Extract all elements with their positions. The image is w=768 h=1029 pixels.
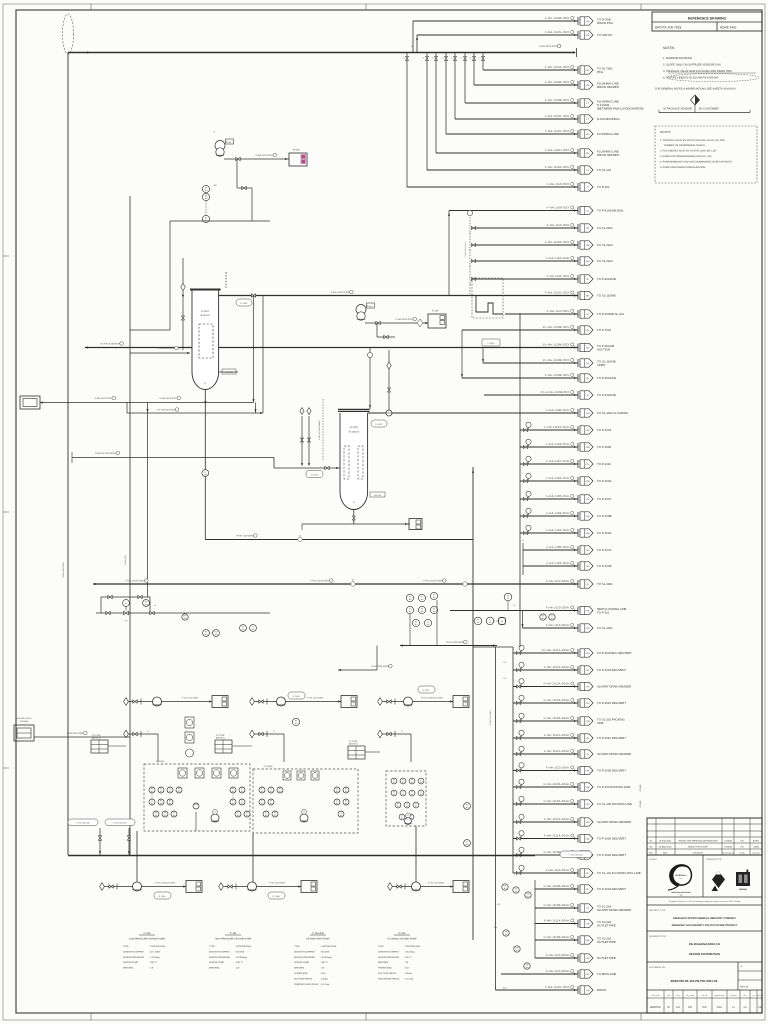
instrument bubble on row y=686.5 (517, 685, 521, 688)
wire to off-page connector 07 at y=314.0 (505, 313, 578, 315)
svg-text:23A: 23A (586, 803, 590, 806)
off-page connector 22B (577, 443, 579, 451)
svg-text:3. TRIANGLE VALVE NEW FLUSHIN: 3. TRIANGLE VALVE NEW FLUSHING AND DRAIN… (663, 70, 732, 73)
off-page connector 77 (577, 183, 579, 191)
small verticals for rows 550/566 (522, 543, 524, 575)
svg-text:110: 110 (401, 817, 404, 820)
wire to off-page connector 22B at y=481.0 (520, 480, 578, 482)
branch below P-1102 (376, 323, 378, 337)
vertical from header to row 21 (412, 21, 414, 53)
svg-text:"T": "T" (213, 131, 216, 134)
svg-text:F-HA-J107-/02A: F-HA-J107-/02A (546, 459, 569, 463)
off-page connector 14A (577, 649, 579, 657)
svg-text:TO P-100B: TO P-100B (597, 514, 611, 518)
svg-text:P-110C: P-110C (423, 689, 430, 692)
svg-text:F-HA-J110-/023: F-HA-J110-/023 (67, 732, 84, 735)
svg-text:SUCTION PRESS.: SUCTION PRESS. (378, 972, 397, 975)
line y=457.5 long to vessel2 (72, 457, 274, 459)
svg-text:110: 110 (151, 790, 154, 793)
svg-text:TO SLP107: TO SLP107 (597, 33, 612, 37)
svg-text:F-HA-J110L-/023: F-HA-J110L-/023 (545, 291, 569, 295)
battery limit box left (second) (14, 725, 34, 741)
svg-text:1½-HA-J110-/023: 1½-HA-J110-/023 (157, 409, 176, 412)
vertical row395 drop (483, 395, 485, 413)
svg-text:F-HA-J104-/02B: F-HA-J104-/02B (546, 256, 569, 260)
off-page connector 27B (577, 624, 579, 632)
svg-text:110: 110 (527, 895, 530, 898)
off-page connector 07A (577, 257, 579, 265)
svg-text:F-HA-J110-200A: F-HA-J110-200A (546, 606, 569, 610)
wire to off-page connector 23 at y=908.0 (535, 907, 578, 909)
svg-text:2x: 2x (411, 45, 413, 48)
svg-text:110: 110 (345, 802, 348, 805)
svg-text:22B: 22B (586, 532, 590, 535)
svg-text:10A: 10A (586, 133, 590, 136)
svg-text:HDPE PKG: HDPE PKG (720, 26, 737, 30)
svg-text:F-HA-J110B-204A: F-HA-J110B-204A (544, 884, 569, 888)
svg-text:MATERIAL: MATERIAL (378, 961, 390, 964)
svg-text:110: 110 (340, 814, 343, 817)
svg-text:110: 110 (676, 1006, 681, 1009)
pump P-1102 (356, 305, 366, 315)
svg-text:TO P-1010: TO P-1010 (597, 462, 611, 466)
drops to suction header (99, 828, 101, 856)
svg-text:TO P-4001A/B: TO P-4001A/B (597, 376, 616, 380)
off-page connector 27A (577, 699, 579, 707)
svg-text:110: 110 (421, 598, 424, 601)
svg-text:HEXANE (NEW): HEXANE (NEW) (17, 717, 32, 720)
svg-text:TO P-2201A/B: TO P-2201A/B (597, 277, 616, 281)
svg-text:N.C.: N.C. (497, 903, 501, 906)
svg-text:110: 110 (409, 598, 412, 601)
svg-text:PETROPALA: PETROPALA (675, 874, 687, 877)
svg-text:1½-HA-J110B-/023: 1½-HA-J110B-/023 (542, 358, 569, 362)
vessel D-1101 (192, 292, 219, 390)
wire to off-page connector 41 at y=584.0 (93, 583, 578, 585)
svg-text:F-HA-J101-/02A: F-HA-J101-/02A (546, 561, 569, 565)
svg-text:REFERENCE DRAWING: REFERENCE DRAWING (688, 17, 727, 21)
off-page connector 07 (577, 869, 579, 877)
wire to off-page connector 07A at y=261.0 (473, 260, 578, 262)
svg-text:07A: 07A (586, 69, 590, 72)
off-page connector 41 (577, 580, 579, 588)
svg-text:110: 110 (232, 802, 235, 805)
wire to off-page connector 22B at y=838.5 (513, 838, 578, 840)
off-page connector 23 (577, 683, 579, 691)
svg-text:110: 110 (232, 790, 235, 793)
wire to off-page connector 27B at y=499.0 (520, 498, 578, 500)
svg-text:DISCHARGE PRESS.: DISCHARGE PRESS. (378, 977, 400, 980)
svg-text:110: 110 (160, 790, 163, 793)
svg-text:F-HA-J110-/023: F-HA-J110-/023 (396, 318, 413, 321)
feed line into D-1102 (274, 467, 340, 469)
wire to off-page connector 0B at y=295.5 (219, 295, 578, 297)
svg-text:1½-F-HA-J110B-023: 1½-F-HA-J110B-023 (540, 390, 569, 394)
svg-text:: 100 °C: : 100 °C (320, 961, 328, 964)
svg-text:: 100 °C: : 100 °C (149, 961, 157, 964)
wire to off-page connector 1B at y=363.0 (483, 362, 578, 364)
off-page connector 74C (577, 224, 579, 232)
sheet number table (647, 989, 762, 991)
svg-text:110: 110 (155, 814, 158, 817)
svg-text:110: 110 (205, 197, 208, 200)
off-page connector 07 (577, 885, 579, 893)
svg-text:74B: 74B (586, 244, 590, 247)
svg-text:F-HA-J111A-204A: F-HA-J111A-204A (544, 665, 569, 669)
instrument bubble on row y=822.0 (517, 821, 521, 824)
svg-text:POWER (kW): POWER (kW) (294, 972, 308, 975)
wire to off-page connector 77 at y=187.0 (407, 186, 578, 188)
wire to off-page connector 26B at y=940.0 (535, 939, 578, 941)
svg-text:F-HA-J110A-200A: F-HA-J110A-200A (125, 580, 145, 583)
long line y=539.5 (205, 539, 473, 541)
svg-text:SLURRY DRAIN HEADER: SLURRY DRAIN HEADER (597, 752, 631, 756)
svg-text:NOTES:: NOTES: (663, 46, 675, 50)
svg-text:16-Aug-2021: 16-Aug-2021 (659, 840, 672, 843)
svg-text:TO P-110A/B/C DELIVERY: TO P-110A/B/C DELIVERY (597, 651, 632, 655)
svg-text:110: 110 (145, 603, 148, 606)
svg-text:3. PUMP SUCTION/DISCHARGE NOZ: 3. PUMP SUCTION/DISCHARGE NOZZLE LIST. (660, 155, 712, 158)
svg-text:2x: 2x (432, 57, 434, 60)
wire to off-page connector 23A at y=770.5 (513, 770, 578, 772)
wire to off-page connector 27B at y=628.0 (523, 627, 579, 629)
package vendor / customer legend (691, 95, 700, 105)
svg-text:F-HA-J110B-204A: F-HA-J110B-204A (544, 935, 569, 939)
svg-text:F-HA-J101-/023: F-HA-J101-/023 (547, 274, 570, 278)
svg-text:F-HA-J111A-204A: F-HA-J111A-204A (544, 919, 569, 923)
wire to off-page connector 23 at y=686.5 (513, 686, 578, 688)
left main vertical line V1 (67, 53, 69, 856)
svg-text:07A: 07A (586, 329, 590, 332)
svg-text:F-HA-J110-200A: F-HA-J110-200A (446, 641, 464, 644)
svg-text:DESIGN TEMP.: DESIGN TEMP. (209, 961, 225, 964)
svg-text:F-HA-J110E-/023: F-HA-J110E-/023 (545, 80, 570, 84)
suction header (68, 855, 535, 857)
second notes box (dashed) (655, 126, 757, 183)
svg-text:DEHDASHT HIGH DENSITY POLYETHY: DEHDASHT HIGH DENSITY POLYETHYLENE PROJE… (672, 924, 738, 927)
svg-text:LINE: LINE (597, 721, 603, 725)
svg-text:F-HA-J111A-204A: F-HA-J111A-204A (544, 817, 569, 821)
off-page connector 23B (577, 851, 579, 859)
svg-text:22B: 22B (586, 838, 590, 841)
off-page connector 17 (577, 115, 579, 123)
svg-text:110: 110 (279, 790, 282, 793)
fine print strip (647, 904, 762, 906)
spare train diamond/valve stub (378, 730, 383, 738)
svg-text:F-HA-J100-/02A: F-HA-J100-/02A (546, 545, 569, 549)
svg-text:F-HA-J110-/023: F-HA-J110-/023 (256, 154, 273, 157)
svg-text:I-1(0)/1: I-1(0)/1 (487, 342, 495, 345)
svg-text:2x: 2x (461, 57, 463, 60)
svg-text:F-HA-J110-200A: F-HA-J110-200A (182, 696, 199, 699)
svg-text:22A: 22A (586, 737, 590, 740)
flushing drop x=370 to D-1102 overhead (369, 348, 371, 410)
svg-text:F-HA-J113-204A: F-HA-J113-204A (546, 766, 569, 770)
package 2 gauge boxes row (283, 771, 291, 780)
svg-text:TO SL-1001 FLUSHING: TO SL-1001 FLUSHING (597, 411, 629, 415)
client logo (swirl) (668, 865, 691, 890)
svg-text:1/3: 1/3 (758, 1006, 762, 1009)
svg-text:0001: 0001 (717, 1006, 723, 1009)
verticals right of D-1101 (253, 296, 255, 403)
spare train diamond/valve stub (250, 730, 255, 738)
svg-text:TO P-1000 DELIVERY: TO P-1000 DELIVERY (597, 853, 626, 857)
svg-text:: 57.1 m3/h: : 57.1 m3/h (149, 950, 161, 953)
svg-text:14-May-2020: 14-May-2020 (659, 846, 673, 849)
svg-text:MATERIAL: MATERIAL (294, 967, 306, 970)
package box H-110 (magenta marks) (289, 153, 307, 166)
off-page connector 10A (577, 149, 579, 157)
valve on D-1102 overhead line (row 413) (386, 410, 392, 416)
svg-text:F-HA-J110-200A: F-HA-J110-200A (307, 696, 324, 699)
svg-text:F-HA-J110/110-200A: F-HA-J110/110-200A (155, 881, 176, 884)
svg-text:CLIENT: CLIENT (649, 858, 657, 861)
svg-text:: CS: : CS (404, 961, 409, 964)
wire to off-page connector 74C at y=228.0 (473, 227, 578, 229)
wire to off-page connector 23B at y=855.0 (513, 854, 578, 856)
package 1 dashed boundary (144, 764, 250, 831)
svg-text:110: 110 (505, 933, 508, 936)
svg-text:(NOTE 3): (NOTE 3) (216, 737, 225, 740)
svg-text:2-HA-J110-/023: 2-HA-J110-/023 (539, 45, 557, 48)
package 1 instrument bubbles (149, 787, 155, 793)
off-page connector 22B (577, 477, 579, 485)
svg-text:F-HA-J110-202: F-HA-J110-202 (569, 854, 583, 857)
feed line into D-1101 (130, 352, 190, 354)
wire to off-page connector 22A at y=738.0 (513, 737, 578, 739)
svg-text:TO D-101: TO D-101 (597, 185, 610, 189)
svg-text:DRT-PX-PID-7023: DRT-PX-PID-7023 (655, 26, 681, 30)
svg-text:TO P-100A DELIVERY: TO P-100A DELIVERY (597, 887, 626, 891)
svg-text:(BETWEEN P&D-110 DISCHARGE): (BETWEEN P&D-110 DISCHARGE) (597, 107, 644, 111)
svg-text:TO SL-4001: TO SL-4001 (597, 582, 613, 586)
wire to off-page connector 74B at y=245.0 (473, 244, 578, 246)
svg-text:F-HA-J110-204A: F-HA-J110-204A (546, 868, 569, 872)
svg-text:FROM(B): FROM(B) (20, 720, 29, 723)
svg-text:110: 110 (420, 781, 423, 784)
instrument bubble on row y=670.0 (517, 669, 521, 672)
svg-text:TO P-4102A/B SEAL: TO P-4102A/B SEAL (597, 209, 624, 213)
package 3 dashed boundary (386, 771, 426, 826)
off-page connector 20 (577, 546, 579, 554)
svg-text:F-HA-J110-/023: F-HA-J110-/023 (95, 397, 112, 400)
svg-text:TEMPERATURE PRESS.: TEMPERATURE PRESS. (294, 983, 319, 986)
svg-text:F-HA-J110-FLUSH: F-HA-J110-FLUSH (464, 242, 467, 258)
svg-text:TO P-1000 DELIVERY: TO P-1000 DELIVERY (597, 769, 626, 773)
svg-text:110: 110 (246, 814, 249, 817)
svg-text:4. TO PIPE LINE(67)-03-110-HA: 4. TO PIPE LINE(67)-03-110-HA-PX-1004-00… (663, 77, 719, 80)
off-page connector 07 (577, 310, 579, 318)
svg-text:4C: 4C (586, 377, 589, 380)
svg-text:ISSUED FOR APPROVAL/INFORMATIO: ISSUED FOR APPROVAL/INFORMATION (678, 840, 718, 843)
svg-text:N.C.: N.C. (494, 926, 498, 929)
svg-text:TO P-100 PACKING LINE: TO P-100 PACKING LINE (597, 785, 630, 789)
svg-text:TO P-1006 DELIVERY: TO P-1006 DELIVERY (597, 837, 626, 841)
svg-text:27B: 27B (586, 957, 590, 960)
line y=670 (338, 669, 377, 671)
pump P-1101 (215, 141, 225, 151)
wire to off-page connector 17A at y=21.0 (413, 20, 578, 22)
off-page connector 27B (577, 495, 579, 503)
svg-text:F-HA-J110A-/023: F-HA-J110A-/023 (545, 165, 570, 169)
svg-text:: 7.70 barg: : 7.70 barg (149, 956, 160, 959)
svg-text:110: 110 (242, 628, 245, 631)
svg-text:TO P-1010 DELIVERY: TO P-1010 DELIVERY (597, 736, 626, 740)
svg-text:N.C.: N.C. (503, 661, 507, 664)
svg-text:H-110: H-110 (293, 149, 300, 152)
sample line (170, 220, 270, 222)
svg-text:: 41.00 barg: : 41.00 barg (320, 956, 332, 959)
svg-text:22B: 22B (586, 446, 590, 449)
svg-text:D-110 DRAINING: D-110 DRAINING (597, 117, 620, 121)
svg-text:110: 110 (336, 790, 339, 793)
svg-text:Issue/Designed: Issue/Designed (722, 852, 734, 855)
svg-text:DEHDASHT PETROCHEMICAL INDUSTR: DEHDASHT PETROCHEMICAL INDUSTRY COMPANY (673, 917, 736, 920)
svg-text:"AA": "AA" (213, 184, 217, 187)
wire to off-page connector 27B at y=958.0 (535, 957, 578, 959)
svg-text:110: 110 (551, 617, 554, 620)
svg-text:S.ARIAN: S.ARIAN (724, 840, 733, 843)
pump train P-110C (378, 698, 383, 706)
svg-text:110: 110 (477, 621, 480, 624)
svg-text:F-HA-J110L-/023: F-HA-J110L-/023 (545, 129, 569, 133)
row210 riser down to header B (448, 211, 450, 296)
svg-text:SUCTION PRESS.: SUCTION PRESS. (294, 977, 313, 980)
svg-text:07A: 07A (586, 260, 590, 263)
svg-text:N.C.: N.C. (503, 987, 508, 990)
svg-text:: 65 m3/h: : 65 m3/h (320, 950, 330, 953)
svg-text:110: 110 (295, 722, 298, 725)
vertical row 610 to 628 (522, 611, 524, 629)
dotted signal with text above D-1102 (322, 399, 324, 461)
left end arrow of row 347 (85, 346, 88, 348)
svg-text:110: 110 (466, 806, 469, 809)
svg-text:TYPE: TYPE (209, 945, 215, 948)
svg-text:DRAWING TITLE: DRAWING TITLE (649, 935, 667, 938)
svg-text:MATERIAL: MATERIAL (209, 967, 221, 970)
wire to off-page connector 27A at y=464.0 (520, 463, 578, 465)
svg-text:1½-HA-J111A-204A: 1½-HA-J111A-204A (542, 648, 570, 652)
instrument bubble on row y=804.0 (517, 803, 521, 806)
wire to off-page connector 10A at y=153.0 (436, 152, 578, 154)
off-page connector 20 (577, 562, 579, 570)
svg-text:2x: 2x (479, 57, 481, 60)
svg-text:: CS: : CS (149, 967, 154, 970)
svg-text:21A: 21A (586, 412, 590, 415)
svg-text:-----: ----- (679, 878, 683, 880)
off-page connector 26B (577, 936, 579, 944)
svg-text:: CENTRIFUGAL: : CENTRIFUGAL (235, 945, 252, 948)
package diamonds feeding D-1102 line (301, 416, 303, 464)
svg-text:XXX/XXX: XXX/XXX (225, 371, 233, 374)
svg-text:F-HA-J110A-204A: F-HA-J110A-204A (544, 799, 569, 803)
instrument bubble on row y=499.0 (524, 498, 528, 501)
svg-text:F-HA-J110B-/023: F-HA-J110B-/023 (545, 98, 570, 102)
svg-text:TO P-1005: TO P-1005 (597, 445, 611, 449)
svg-text:DRAIN PKG: DRAIN PKG (597, 21, 614, 25)
wire to off-page connector 23 at y=754.0 (513, 753, 578, 755)
svg-text:26B: 26B (586, 939, 590, 942)
svg-text:P-112 A/B: P-112 A/B (312, 932, 324, 935)
svg-text:07B: 07B (586, 84, 590, 87)
svg-text:B.MRY: B.MRY (753, 840, 760, 843)
svg-text:DESIGN FLOWRATE: DESIGN FLOWRATE (209, 950, 231, 953)
svg-text:12-HA-J110-204A: 12-HA-J110-204A (489, 710, 492, 726)
svg-text:TO MAIN LINE: TO MAIN LINE (597, 972, 616, 976)
wire to off-page connector 27A at y=610.5 (450, 610, 578, 612)
svg-text:27A: 27A (586, 669, 590, 672)
bottom pump train B (219, 883, 224, 891)
svg-text:S.ARIAN: S.ARIAN (724, 846, 733, 849)
wire to off-page connector 07A at y=330.0 (462, 329, 578, 331)
vertical to row 35 with up arrow (416, 35, 418, 53)
svg-text:F-HA-J110B-/023: F-HA-J110B-/023 (545, 16, 570, 20)
svg-text:F-HA-J110L-/023: F-HA-J110L-/023 (545, 114, 569, 118)
off-page connector 07A (577, 66, 579, 74)
svg-text:(NOTE 3): (NOTE 3) (349, 743, 358, 746)
svg-text:: CENTRIFUGAL: : CENTRIFUGAL (320, 945, 337, 948)
off-page connector 07B (577, 31, 579, 39)
break marker on row 584 (351, 582, 355, 586)
svg-text:14A: 14A (586, 652, 590, 655)
svg-text:Rev.: Rev. (649, 852, 653, 855)
off-page connector 23A (577, 767, 579, 775)
svg-text:F-HA-J100-/02A: F-HA-J100-/02A (546, 408, 569, 412)
svg-text:OUTLET PIPE: OUTLET PIPE (597, 956, 616, 960)
svg-text:DRAIN: DRAIN (597, 988, 606, 992)
svg-text:1. CONTROL VALVE BY POLYETH: 1. CONTROL VALVE BY POLYETHYLENE VALVE L… (660, 139, 725, 142)
discharge line from P-1101 to package H-110 (224, 158, 289, 160)
svg-text:TO P-7001: TO P-7001 (597, 328, 611, 332)
instrument bubble on row y=447.0 (524, 446, 528, 449)
svg-text:D-1102: D-1102 (375, 423, 383, 426)
verticals feeding rows 889-958 (534, 880, 536, 958)
svg-text:BFBTP60-00-110-PR-PID-0001-03: BFBTP60-00-110-PR-PID-0001-03 (671, 979, 718, 983)
instrument bubble on row y=770.5 (517, 769, 521, 772)
svg-text:P-110B: P-110B (273, 895, 280, 898)
svg-text:F-HA-J110-200: F-HA-J110-200 (76, 822, 90, 825)
off-page connector 22B (577, 529, 579, 537)
wire to off-page connector 22B at y=787.0 (513, 786, 578, 788)
svg-text:F-HA-J100-/02A: F-HA-J100-/02A (546, 494, 569, 498)
instrument bubble on row y=721.0 (517, 720, 521, 723)
wire to off-page connector 10A at y=134.0 (446, 133, 578, 135)
svg-text:DESIGN FLOWRATE: DESIGN FLOWRATE (378, 950, 400, 953)
diamond package symbol (300, 408, 304, 415)
svg-text:BFBTP60: BFBTP60 (650, 1006, 661, 1009)
contractor logo 2 (dark square) (736, 872, 750, 886)
svg-text:27A: 27A (586, 463, 590, 466)
svg-text:NUMBER OF DRAWING/DELIVERED.: NUMBER OF DRAWING/DELIVERED. (664, 144, 706, 147)
svg-text:TO SL-100 PACKING LINE: TO SL-100 PACKING LINE (597, 802, 632, 806)
svg-text:F-HA-J116-/023: F-HA-J116-/023 (160, 397, 177, 400)
package 1 pump (211, 814, 219, 822)
diamond (package scope) at D-1101 inlet (181, 283, 185, 290)
svg-text:FOR GENERAL NOTES & ABBREVIATI: FOR GENERAL NOTES & ABBREVIATIONS SEE SH… (655, 88, 736, 91)
svg-text:110: 110 (507, 597, 510, 600)
off-page connector 22B (577, 835, 579, 843)
svg-text:110: 110 (261, 790, 264, 793)
svg-text:PR: PR (688, 1006, 692, 1009)
svg-text:: CENTRIFUGAL: : CENTRIFUGAL (149, 945, 166, 948)
svg-text:4. PUMP MINIMUM FLOW LINE: 4. PUMP MINIMUM FLOW LINE DRAWING/DELIVE… (660, 161, 732, 164)
svg-text:2x: 2x (469, 249, 471, 252)
svg-text:BY CUSTOMER: BY CUSTOMER (699, 108, 719, 111)
svg-text:2x: 2x (154, 604, 156, 607)
svg-text:P-110: P-110 (144, 932, 151, 935)
svg-text:FLUSHING LINE: FLUSHING LINE (597, 132, 619, 136)
border tick marks (90, 4, 92, 10)
